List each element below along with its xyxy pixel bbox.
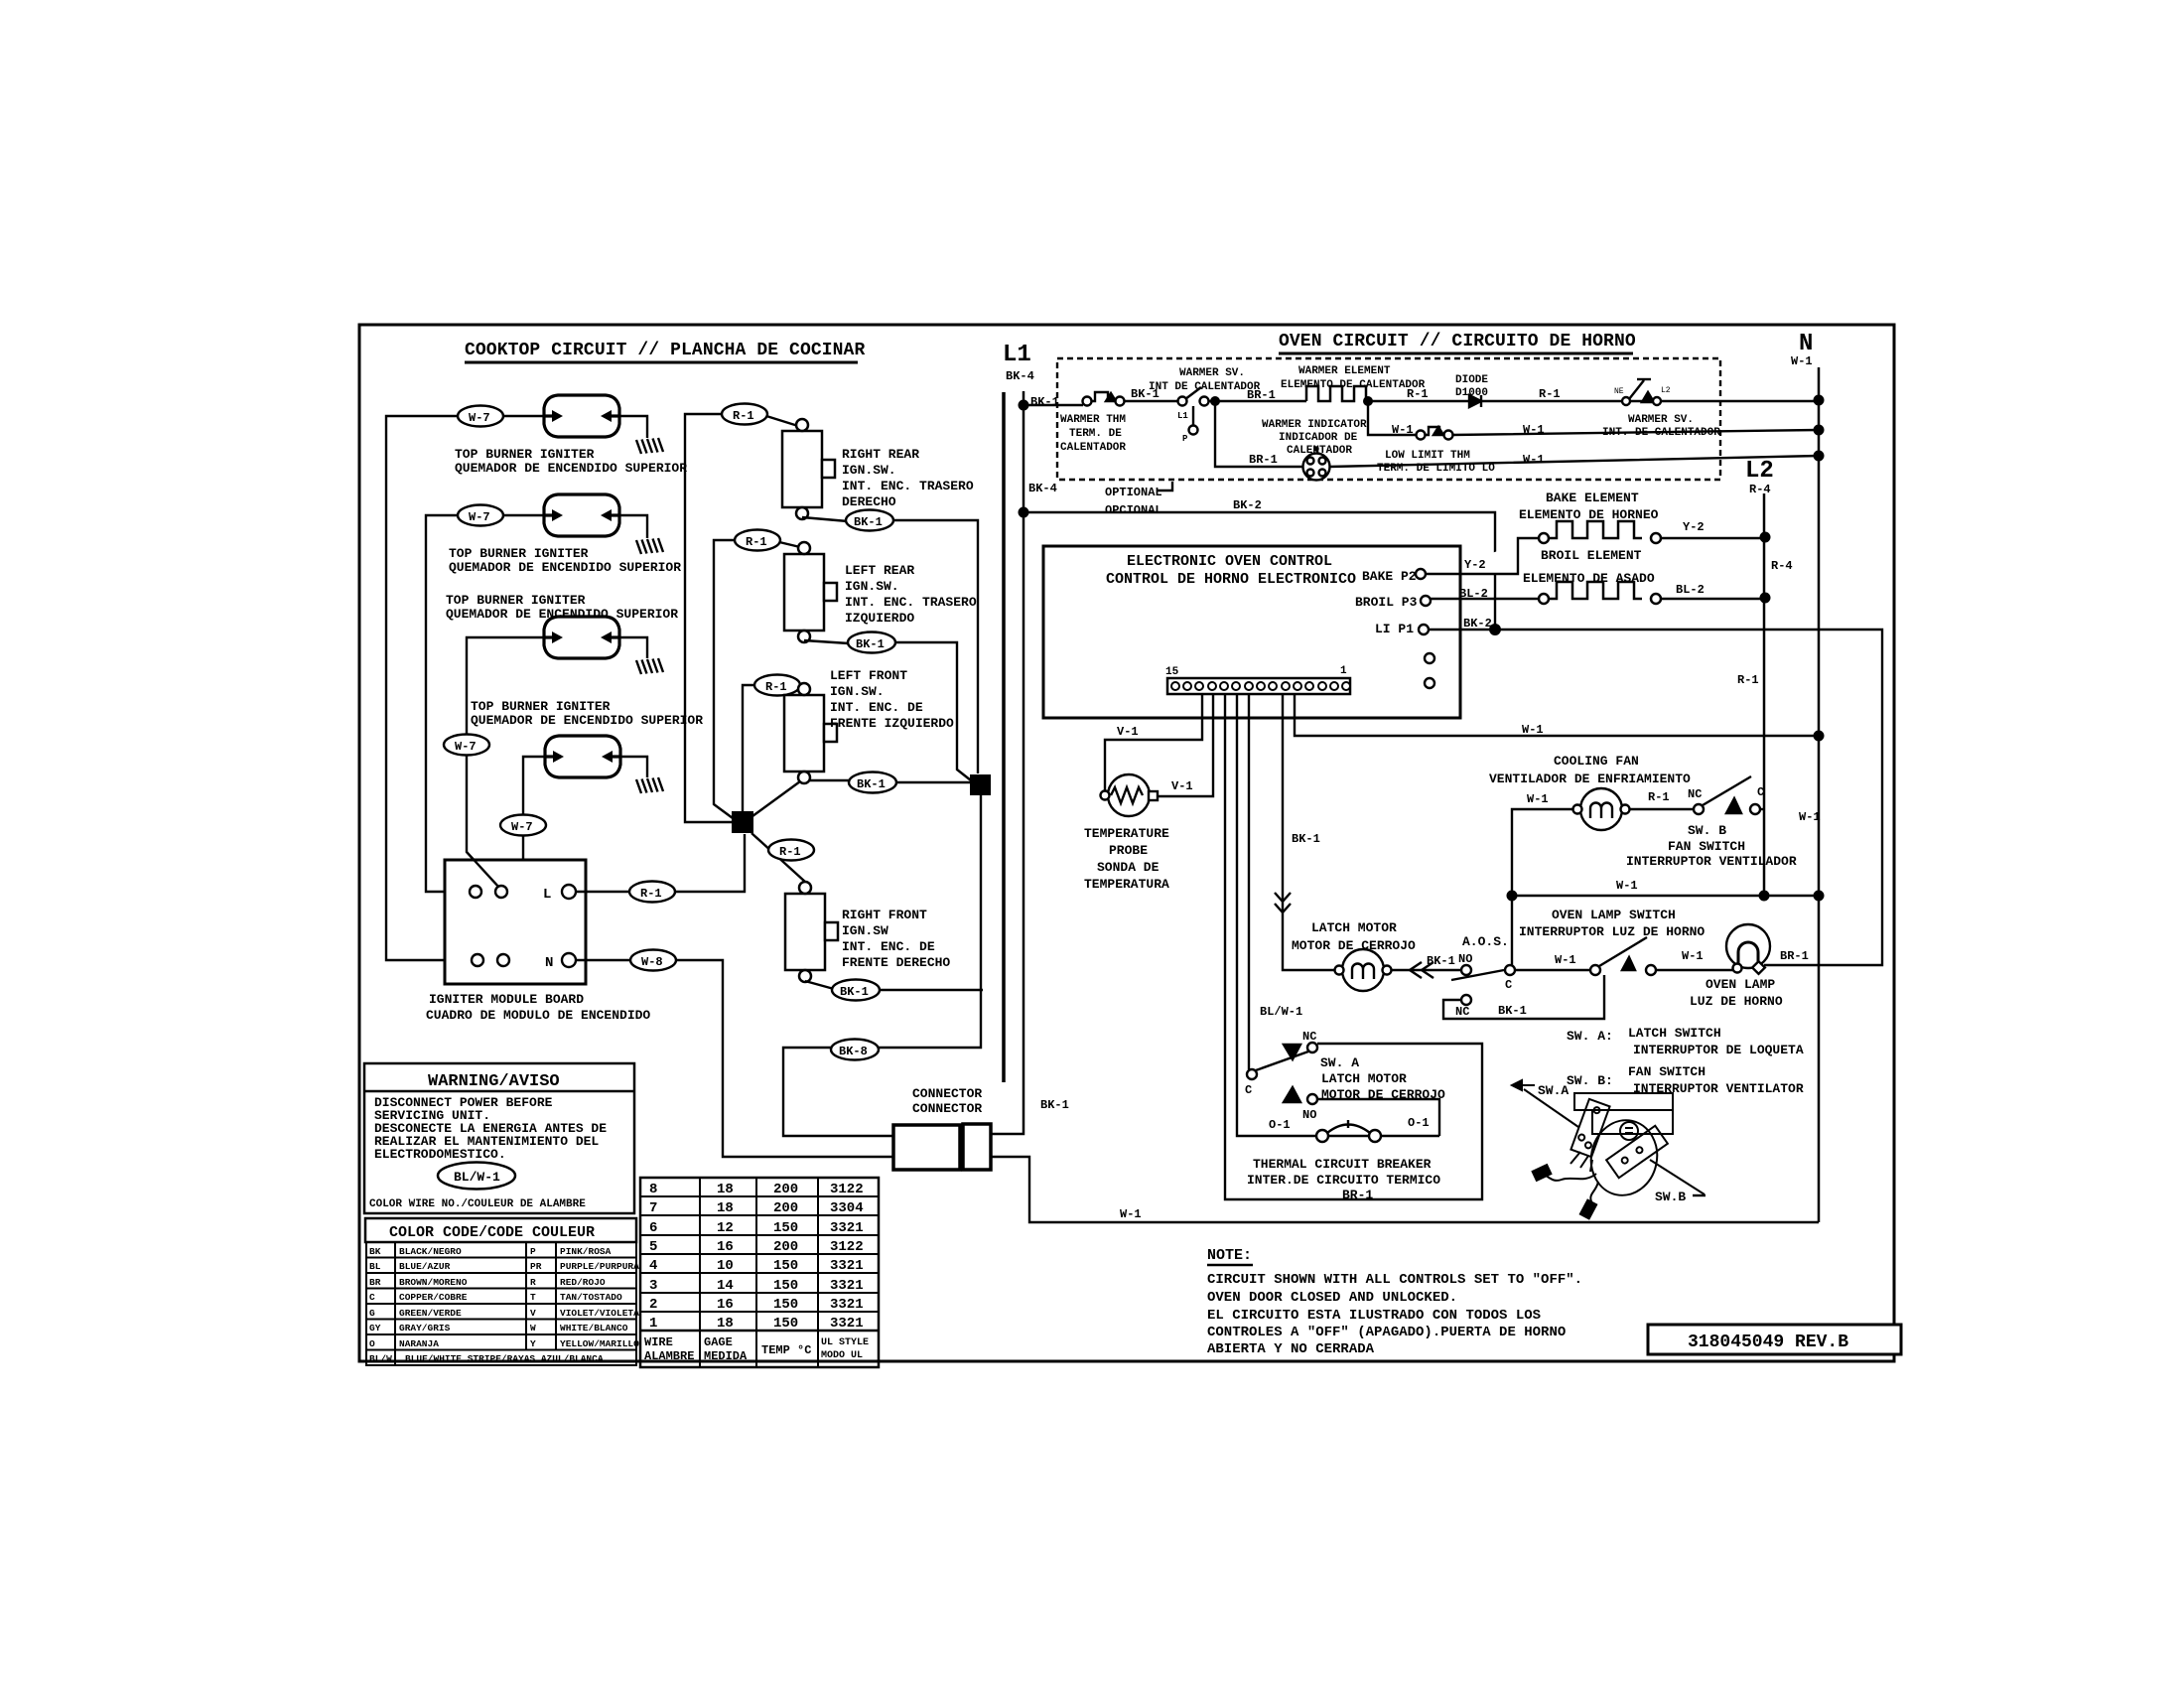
svg-text:BK-1: BK-1 (854, 515, 883, 529)
label V-1 pair (1117, 725, 1193, 793)
label R-1 oval 2 (735, 530, 780, 551)
title COOKTOP CIRCUIT (465, 341, 865, 362)
svg-text:R-1: R-1 (1407, 387, 1429, 401)
label warmer sv (1149, 367, 1261, 444)
wire pin4 O-1 to thermal breaker (1237, 694, 1317, 1136)
svg-text:12: 12 (717, 1220, 734, 1236)
svg-text:SW.B: SW.B (1655, 1190, 1686, 1204)
label O-1 pair (1269, 1116, 1430, 1132)
svg-text:W-7: W-7 (455, 740, 477, 754)
warning box (364, 1063, 634, 1213)
svg-text:NOTE:: NOTE: (1207, 1247, 1252, 1264)
svg-text:150: 150 (773, 1278, 798, 1294)
wire R-1 #3 branch up from square A (743, 685, 754, 812)
label BK-8 oval (831, 1040, 879, 1060)
svg-text:ABIERTA Y NO CERRADA: ABIERTA Y NO CERRADA (1207, 1341, 1375, 1357)
warmer element (1306, 386, 1366, 401)
svg-text:W-7: W-7 (469, 510, 490, 524)
wire low limit W-1 branch (1368, 401, 1819, 435)
ground 2 (636, 538, 663, 554)
chevrons << (1410, 962, 1433, 978)
svg-text:BL/W: BL/W (369, 1353, 392, 1364)
svg-text:150: 150 (773, 1297, 798, 1313)
label latch motor (1292, 920, 1416, 953)
svg-text:CONNECTOR: CONNECTOR (912, 1101, 982, 1116)
label warmer indicator (1262, 419, 1367, 457)
node BK-2 junction (1463, 617, 1501, 635)
wire LI P1 to oven lamp BR-1 (1429, 630, 1882, 965)
svg-text:3321: 3321 (830, 1297, 864, 1313)
svg-text:15: 15 (1165, 666, 1179, 678)
label NO / C AOS (1458, 952, 1512, 992)
top burner igniter 3 (544, 617, 619, 658)
label left rear ign.sw. (845, 563, 977, 626)
pin LI P1 (1375, 622, 1429, 636)
label W-7 oval 2 (458, 505, 503, 526)
svg-text:BK-1: BK-1 (1427, 954, 1455, 968)
svg-text:G: G (369, 1308, 375, 1319)
svg-text:BK-1: BK-1 (840, 985, 869, 999)
svg-text:18: 18 (717, 1200, 734, 1216)
svg-text:WARMER ELEMENT: WARMER ELEMENT (1298, 365, 1391, 377)
svg-text:COOLING FAN: COOLING FAN (1554, 754, 1639, 769)
node junction warmer indicator (1210, 396, 1220, 406)
svg-text:L2: L2 (1661, 386, 1671, 395)
svg-text:LI P1: LI P1 (1375, 622, 1414, 636)
label BK-1 oval 4 (832, 980, 880, 1001)
arrow chevrons on BK-1 (1275, 893, 1291, 912)
svg-text:W-1: W-1 (1523, 423, 1545, 437)
svg-text:Y-2: Y-2 (1464, 558, 1486, 572)
svg-text:BK-1: BK-1 (856, 637, 885, 651)
svg-text:CUADRO DE MODULO DE ENCENDIDO: CUADRO DE MODULO DE ENCENDIDO (426, 1008, 650, 1023)
svg-text:SW. A:: SW. A: (1567, 1029, 1613, 1044)
NC contact circle (1461, 995, 1471, 1005)
wire cooling fan W-1 (1512, 809, 1572, 896)
label W-7 oval 1 (458, 406, 503, 427)
svg-text:BROIL P3: BROIL P3 (1355, 595, 1418, 610)
svg-text:BLUE/WHITE STRIPE/RAYAS AZUL/B: BLUE/WHITE STRIPE/RAYAS AZUL/BLANCA (405, 1353, 604, 1364)
wire L to R-1 and up to junction square (576, 834, 745, 892)
svg-text:TOP BURNER IGNITER: TOP BURNER IGNITER (446, 593, 586, 608)
svg-text:INDICADOR DE: INDICADOR DE (1279, 432, 1358, 444)
svg-text:CIRCUIT SHOWN WITH ALL CONTROL: CIRCUIT SHOWN WITH ALL CONTROLS SET TO "… (1207, 1272, 1582, 1288)
wire BK-2 from L1 to EOC LI P1 (1024, 512, 1495, 630)
color code header box (365, 1218, 636, 1242)
svg-text:QUEMADOR DE ENCENDIDO SUPERIOR: QUEMADOR DE ENCENDIDO SUPERIOR (446, 607, 678, 622)
wire NO branch to breaker (1317, 1099, 1439, 1136)
svg-text:FAN SWITCH: FAN SWITCH (1668, 839, 1745, 854)
wire left front bottom diagonal to junction square A (752, 781, 800, 816)
svg-text:DERECHO: DERECHO (842, 494, 896, 509)
svg-text:1: 1 (649, 1316, 657, 1332)
wire igniter1 left to module board (386, 416, 543, 960)
wire igniter4 right to ground (620, 757, 647, 777)
svg-text:PROBE: PROBE (1109, 843, 1148, 858)
label R-1 oval 4 (768, 840, 814, 861)
bake element (1426, 521, 1764, 574)
label CONNECTOR CONNECTOR (912, 1086, 982, 1116)
svg-text:IGN.SW.: IGN.SW. (842, 463, 896, 478)
svg-text:R: R (530, 1277, 536, 1288)
wire junction square B down and left through BK-8 to connector (783, 795, 981, 1136)
border frame (359, 325, 1894, 1361)
ground 4 (636, 777, 663, 793)
left front ignition switch (784, 683, 837, 783)
svg-text:D1000: D1000 (1455, 387, 1488, 399)
svg-text:18: 18 (717, 1316, 734, 1332)
svg-text:16: 16 (717, 1297, 734, 1313)
svg-text:N: N (545, 955, 553, 971)
node BK-1 junction (1019, 395, 1059, 411)
svg-text:C: C (369, 1292, 375, 1303)
svg-text:R-1: R-1 (1737, 673, 1759, 687)
wire BK-1 #4 to right rail (880, 989, 983, 991)
right rear ignition switch (782, 419, 835, 519)
label strip 15 / 1 (1165, 665, 1347, 678)
svg-text:R-1: R-1 (733, 409, 754, 423)
warmer indicator lamp (1303, 448, 1330, 481)
svg-text:2: 2 (649, 1297, 657, 1313)
node N dots (1814, 395, 1825, 462)
warning text (374, 1095, 607, 1162)
svg-text:OVEN LAMP SWITCH: OVEN LAMP SWITCH (1552, 908, 1676, 922)
label top burner igniter 3 (446, 593, 678, 622)
junction square B (970, 774, 991, 795)
svg-text:BK-1: BK-1 (1040, 1098, 1069, 1112)
oven lamp switch (1590, 937, 1734, 975)
svg-text:BK-1: BK-1 (1292, 832, 1320, 846)
label R-1 oval (module L) (629, 882, 675, 903)
wire gauge table (640, 1178, 879, 1367)
svg-text:W-8: W-8 (641, 955, 663, 969)
svg-text:COLOR CODE/CODE COULEUR: COLOR CODE/CODE COULEUR (389, 1224, 595, 1241)
wire gauge rows (649, 1182, 864, 1332)
wire warmer main BK-1/BR-1/R-1 (1024, 401, 1819, 405)
svg-text:V-1: V-1 (1117, 725, 1139, 739)
svg-text:SW.A: SW.A (1538, 1083, 1569, 1098)
svg-text:BROIL ELEMENT: BROIL ELEMENT (1541, 548, 1642, 563)
wire igniter3 right to ground (620, 637, 647, 658)
svg-text:18: 18 (717, 1182, 734, 1197)
svg-text:NC: NC (1455, 1005, 1469, 1019)
svg-text:16: 16 (717, 1239, 734, 1255)
color code table (366, 1242, 636, 1365)
warmer thermostat THM (1083, 392, 1125, 406)
svg-text:FAN SWITCH: FAN SWITCH (1628, 1064, 1706, 1079)
connector housing 2 (963, 1124, 991, 1170)
diode D1000 (1469, 395, 1481, 407)
warmer sv switch (1178, 387, 1209, 435)
svg-text:W-1: W-1 (1616, 879, 1638, 893)
node BK-2 junction on L1 (1019, 507, 1029, 518)
svg-text:NO: NO (1302, 1108, 1316, 1122)
svg-text:BL-2: BL-2 (1676, 583, 1705, 597)
label temperature probe (1084, 826, 1169, 892)
svg-text:318045049 REV.B: 318045049 REV.B (1688, 1333, 1848, 1352)
wire R-1 #2 to left rear switch (779, 542, 800, 547)
revision box (1648, 1325, 1901, 1354)
svg-text:Y-2: Y-2 (1683, 520, 1705, 534)
svg-text:3321: 3321 (830, 1278, 864, 1294)
svg-text:BL/W-1: BL/W-1 (1260, 1005, 1302, 1019)
svg-text:NO: NO (1458, 952, 1472, 966)
svg-text:3321: 3321 (830, 1258, 864, 1274)
top burner igniter 4 (545, 736, 620, 777)
svg-text:1: 1 (1340, 665, 1347, 677)
wire BK-1 #1 to right rail (891, 520, 978, 773)
svg-text:BR-1: BR-1 (1342, 1188, 1373, 1202)
svg-text:INTERRUPTOR DE LOQUETA: INTERRUPTOR DE LOQUETA (1633, 1043, 1804, 1057)
node junction warmer element out (1363, 396, 1373, 406)
label top burner igniter 4 (471, 699, 703, 728)
wire pin3 NC return loop (1225, 694, 1482, 1199)
svg-text:BLUE/AZUR: BLUE/AZUR (399, 1261, 451, 1272)
wire L1 main rail BK-4 (1002, 392, 1006, 1082)
wire R-1 #1 to right rear switch (766, 416, 798, 426)
svg-text:FRENTE IZQUIERDO: FRENTE IZQUIERDO (830, 716, 954, 731)
svg-text:PURPLE/PURPURA: PURPLE/PURPURA (560, 1261, 639, 1272)
svg-text:UL STYLE: UL STYLE (821, 1337, 869, 1348)
label thermal circuit breaker (1247, 1157, 1440, 1202)
svg-text:4: 4 (649, 1258, 657, 1274)
wire R-1 rail left (R-1 #1 to junction square A) (685, 414, 732, 822)
wire N rail (1818, 367, 1821, 1222)
svg-text:IGN.SW.: IGN.SW. (830, 684, 885, 699)
electronic oven control box (1043, 546, 1460, 718)
AOS switch (1451, 965, 1515, 980)
svg-text:Y: Y (530, 1338, 536, 1349)
left rear ignition switch (784, 542, 837, 642)
label SW. B fan switch (1626, 823, 1797, 869)
svg-text:BL/W-1: BL/W-1 (454, 1170, 500, 1185)
ground 1 (636, 438, 663, 454)
svg-text:BK: BK (369, 1246, 381, 1257)
svg-text:V-1: V-1 (1171, 779, 1193, 793)
color code rows (369, 1246, 639, 1364)
ground 3 (636, 658, 663, 674)
svg-text:WARNING/AVISO: WARNING/AVISO (428, 1072, 560, 1091)
wire right front bottom to BK-1 #4 (805, 981, 834, 989)
label SW. A latch motor (1320, 1055, 1445, 1102)
cooling fan motor (1573, 788, 1630, 830)
svg-text:INT. ENC. TRASERO: INT. ENC. TRASERO (845, 595, 977, 610)
svg-text:A.O.S.: A.O.S. (1462, 934, 1509, 949)
pin BROIL P3 (1355, 595, 1431, 610)
label R-1 oval 3 (754, 675, 800, 696)
svg-text:BLACK/NEGRO: BLACK/NEGRO (399, 1246, 462, 1257)
label warmer thm (1060, 414, 1126, 454)
svg-text:R-1: R-1 (746, 535, 767, 549)
wire pin5 BL/W-1 to SW.A common (1248, 694, 1250, 1069)
label NC / C SW.A (1245, 1030, 1316, 1097)
svg-text:LATCH MOTOR: LATCH MOTOR (1321, 1071, 1407, 1086)
svg-text:L2: L2 (1745, 458, 1774, 485)
svg-text:LEFT REAR: LEFT REAR (845, 563, 914, 578)
svg-text:IGNITER MODULE BOARD: IGNITER MODULE BOARD (429, 992, 584, 1007)
label COOLING FAN (1489, 754, 1691, 786)
svg-text:W-1: W-1 (1392, 423, 1414, 437)
temperature probe (1101, 774, 1159, 816)
legend SW.A SW.B (1567, 1026, 1804, 1096)
label NOTE (1207, 1247, 1253, 1265)
wire right rear bottom to BK-1 (802, 517, 848, 521)
svg-text:WARMER INDICATOR: WARMER INDICATOR (1262, 419, 1367, 431)
svg-text:QUEMADOR DE ENCENDIDO SUPERIOR: QUEMADOR DE ENCENDIDO SUPERIOR (471, 713, 703, 728)
svg-text:BR-1: BR-1 (1247, 388, 1276, 402)
svg-text:C: C (1505, 978, 1512, 992)
svg-text:W-1: W-1 (1791, 354, 1813, 368)
SW.A NO contact (1284, 1087, 1317, 1104)
label OVEN LAMP (1690, 977, 1783, 1009)
node L2 (1745, 458, 1774, 496)
label diode (1455, 374, 1488, 399)
label electronic oven control (1106, 553, 1356, 588)
svg-text:INT. ENC. TRASERO: INT. ENC. TRASERO (842, 479, 974, 493)
svg-text:FRENTE DERECHO: FRENTE DERECHO (842, 955, 950, 970)
label W-1 mid (1616, 810, 1821, 893)
top burner igniter 2 (544, 494, 619, 536)
svg-text:T: T (530, 1292, 536, 1303)
svg-text:C: C (1757, 785, 1764, 799)
svg-text:14: 14 (717, 1278, 734, 1294)
svg-text:TOP BURNER IGNITER: TOP BURNER IGNITER (471, 699, 611, 714)
label BAKE ELEMENT (1519, 491, 1659, 522)
svg-text:L1: L1 (1177, 411, 1188, 421)
label warmer sv right (1602, 414, 1720, 439)
wire igniter3 left down to board switch arm (467, 637, 543, 888)
svg-text:BK-1: BK-1 (857, 777, 886, 791)
label warmer element (1281, 365, 1426, 391)
svg-text:ELECTRODOMESTICO.: ELECTRODOMESTICO. (374, 1147, 506, 1162)
svg-text:COLOR WIRE NO./COULEUR DE ALAM: COLOR WIRE NO./COULEUR DE ALAMBRE (369, 1198, 586, 1210)
right front ignition switch (785, 882, 838, 982)
svg-text:THERMAL CIRCUIT BREAKER: THERMAL CIRCUIT BREAKER (1253, 1157, 1432, 1172)
wire BK-1 #2 to junction square B (894, 642, 971, 780)
svg-text:R-4: R-4 (1749, 483, 1771, 496)
svg-text:3: 3 (649, 1278, 657, 1294)
svg-text:P: P (1182, 434, 1188, 444)
latch assembly drawing (1512, 1080, 1705, 1218)
svg-text:8: 8 (649, 1182, 657, 1197)
svg-text:3122: 3122 (830, 1182, 864, 1197)
svg-text:TOP BURNER IGNITER: TOP BURNER IGNITER (455, 447, 595, 462)
svg-text:TAN/TOSTADO: TAN/TOSTADO (560, 1292, 622, 1303)
svg-text:ELECTRONIC OVEN CONTROL: ELECTRONIC OVEN CONTROL (1127, 553, 1332, 570)
node L1 (1003, 342, 1034, 383)
svg-text:7: 7 (649, 1200, 657, 1216)
svg-text:GRAY/GRIS: GRAY/GRIS (399, 1323, 451, 1333)
svg-text:BK-4: BK-4 (1028, 482, 1057, 495)
svg-text:IGN.SW: IGN.SW (842, 923, 888, 938)
wire BK-1 #3 to junction square B (895, 781, 970, 783)
label NC / C fan switch (1688, 785, 1764, 801)
svg-text:BAKE P2: BAKE P2 (1362, 569, 1417, 584)
svg-text:BR: BR (369, 1277, 381, 1288)
svg-text:INTER.DE CIRCUITO TERMICO: INTER.DE CIRCUITO TERMICO (1247, 1173, 1440, 1188)
wire L2 rail (1763, 493, 1766, 896)
svg-text:GREEN/VERDE: GREEN/VERDE (399, 1308, 462, 1319)
EOC terminal strip (1167, 678, 1350, 694)
top burner igniter 1 (544, 395, 619, 437)
svg-text:150: 150 (773, 1258, 798, 1274)
note text (1207, 1272, 1582, 1357)
wire fan to SW.B (1629, 808, 1694, 810)
label right rear ign.sw. (842, 447, 974, 509)
svg-text:BK-4: BK-4 (1006, 369, 1034, 383)
svg-text:BROWN/MORENO: BROWN/MORENO (399, 1277, 468, 1288)
label top burner igniter 1 (455, 447, 687, 476)
svg-text:INTERRUPTOR VENTILADOR: INTERRUPTOR VENTILADOR (1626, 854, 1797, 869)
svg-text:OVEN CIRCUIT // CIRCUITO DE HO: OVEN CIRCUIT // CIRCUITO DE HORNO (1279, 332, 1636, 351)
svg-text:YELLOW/MARILLO: YELLOW/MARILLO (560, 1338, 639, 1349)
svg-text:WIRE: WIRE (644, 1335, 673, 1349)
wire pin7 W-1 upper to N (1295, 694, 1819, 736)
svg-text:PINK/ROSA: PINK/ROSA (560, 1246, 612, 1257)
label Y-2 (1464, 520, 1705, 572)
low limit thm (1417, 427, 1453, 440)
svg-text:BK-2: BK-2 (1233, 498, 1262, 512)
svg-text:ELEMENTO DE CALENTADOR: ELEMENTO DE CALENTADOR (1281, 379, 1426, 391)
wire igniter2 right to ground (620, 515, 647, 538)
svg-text:W-1: W-1 (1527, 792, 1549, 806)
svg-text:W-1: W-1 (1522, 723, 1544, 737)
svg-text:R-1: R-1 (1648, 790, 1670, 804)
svg-text:W-1: W-1 (1799, 810, 1821, 824)
svg-text:QUEMADOR DE ENCENDIDO SUPERIOR: QUEMADOR DE ENCENDIDO SUPERIOR (449, 560, 681, 575)
latch motor (1335, 949, 1392, 991)
svg-text:TEMP °C: TEMP °C (761, 1343, 811, 1357)
svg-text:OVEN DOOR CLOSED AND UNLOCKED.: OVEN DOOR CLOSED AND UNLOCKED. (1207, 1290, 1457, 1306)
wire NC loop (1443, 975, 1604, 1019)
svg-text:LUZ DE HORNO: LUZ DE HORNO (1690, 994, 1783, 1009)
label BROIL ELEMENT (1523, 548, 1655, 586)
EOC spare circles (1425, 653, 1434, 688)
wire igniter1 right to ground (620, 416, 647, 438)
broil element (1431, 582, 1764, 604)
svg-text:SW. B: SW. B (1688, 823, 1726, 838)
label R-1 oval 1 (722, 404, 767, 425)
svg-text:200: 200 (773, 1200, 798, 1216)
svg-text:CONNECTOR: CONNECTOR (912, 1086, 982, 1101)
fan switch SW.B (1694, 776, 1764, 814)
svg-text:R-1: R-1 (779, 845, 801, 859)
warmer dashed box (1057, 358, 1720, 480)
wire pin6 BK-1 to latch motor (1283, 694, 1335, 970)
wire latch motor to AOS (1392, 969, 1461, 971)
svg-text:200: 200 (773, 1239, 798, 1255)
wire BK-1/BK-4 rail to connector (991, 391, 1024, 1134)
svg-text:MOTOR DE CERROJO: MOTOR DE CERROJO (1292, 938, 1416, 953)
svg-text:R-1: R-1 (765, 680, 787, 694)
label W-8 oval (630, 950, 676, 971)
svg-text:W-1: W-1 (1555, 953, 1576, 967)
label OVEN LAMP SWITCH (1519, 908, 1705, 939)
svg-text:R-1: R-1 (1539, 387, 1561, 401)
svg-text:WARMER THM: WARMER THM (1060, 414, 1126, 426)
svg-text:LOW LIMIT THM: LOW LIMIT THM (1385, 450, 1470, 462)
svg-text:LATCH MOTOR: LATCH MOTOR (1311, 920, 1397, 935)
svg-text:R-1: R-1 (640, 887, 662, 901)
wire W-1 bottom line (991, 1157, 1819, 1222)
svg-text:INT DE CALENTADOR: INT DE CALENTADOR (1149, 381, 1261, 393)
svg-text:GY: GY (369, 1323, 381, 1333)
svg-text:EL CIRCUITO ESTA ILUSTRADO CON: EL CIRCUITO ESTA ILUSTRADO CON TODOS LOS (1207, 1308, 1541, 1324)
oven lamp (1726, 924, 1770, 974)
wire left front bottom to BK-1 #3 (810, 779, 850, 781)
wire pin2 V-1 from probe (1158, 694, 1213, 796)
wire left rear bottom to BK-1 (804, 640, 849, 643)
